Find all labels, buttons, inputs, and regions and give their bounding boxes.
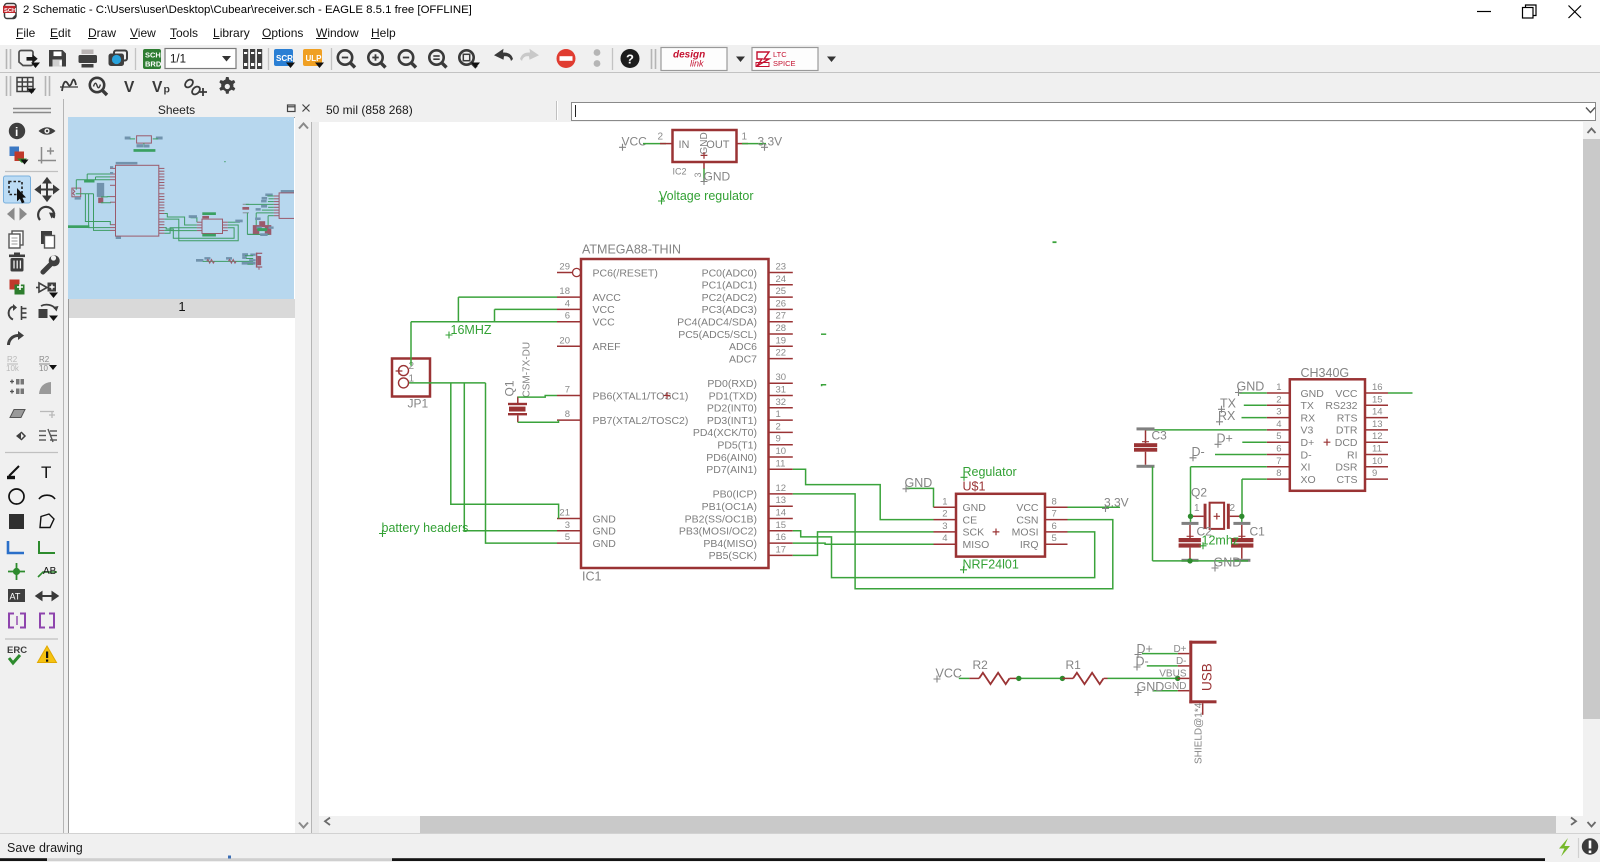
crystal Q1 (CSM-7X-DU) [508,397,527,423]
pin VBUS of USB [1159,669,1189,680]
wire CH340 VCC pin 16 [1388,392,1413,394]
pin 1 of IC1 (PD3(INT1)) [707,409,793,427]
svg-text:i: i [15,125,18,139]
junction at Q2 pin 1 [1188,514,1193,519]
ic CH340G body [1290,379,1365,491]
svg-text:AT: AT [10,592,21,602]
row9 : angle [7,331,24,345]
pin 8 of U$1 (VCC) [1016,496,1067,514]
net label 16MHZ [446,323,492,339]
ic IC1 ATMEGA88-THIN body [581,259,769,568]
trash [11,258,24,272]
pin 14 of IC1 (PB2(SS/OC1B)) [685,508,793,526]
junction at VBUS [1175,676,1180,681]
pin 6 of CH340G (D-) [1267,444,1312,462]
wire XI to Q2 pin 1 [1191,466,1267,468]
wire VCC to IC2 IN [643,143,666,145]
svg-text:R2: R2 [39,355,50,364]
wire PD7 (pin 11) to U$1 CE [793,469,934,519]
pin 17 of IC1 (PB5(SCK)) [709,544,793,562]
pin 13 of CH340G (DTR) [1336,419,1388,437]
sheets panel buttons [288,105,310,112]
stop [557,49,576,68]
capacitor C2 [1179,522,1201,559]
value label NRF24l01 [960,557,1019,573]
wire Q1 top to IC1 pin 7 [518,396,557,398]
svg-text:SCH: SCH [4,8,16,14]
pin 16 of CH340G (VCC) [1335,382,1388,400]
pin 14 of CH340G (RTS) [1337,407,1388,425]
reference designator IC2 [673,167,687,177]
svg-text:link: link [690,59,704,69]
pin 1 of CH340G (GND) [1267,382,1324,400]
crystal Q2 body [1191,503,1242,529]
row20 bus [9,614,25,628]
resistor R1 [1062,673,1107,684]
wire C3 bottom to GND rail [1152,467,1154,561]
wire D- to USB [1147,665,1178,667]
pin label GND (rotated) [699,132,710,154]
pin 1 of IC2 [737,132,749,144]
pin 5 of U$1 (IRQ) [1020,533,1068,551]
wire PB0 (pin 12) to U$1 CSN loop [793,494,1113,589]
junction after R2 [1016,676,1021,681]
pin 5 of CH340G (D+) [1267,431,1314,449]
pin SHIELD of USB [1202,703,1204,715]
rotate-group [39,309,48,318]
pin 32 of IC1 (PD2(INT0)) [707,397,793,415]
select tool highlighted [4,176,31,203]
info [9,123,25,139]
part name USB (rotated) [1200,663,1215,691]
pin 10 of CH340G (DSR) [1335,456,1388,474]
wire Q1 bottom to IC1 pin 8 [518,420,559,422]
pin 15 of IC1 (PB3(MOSI/OC2)) [679,520,793,538]
value label 12mhz [1200,533,1240,549]
pin 23 of IC1 (PC0(ADC0)) [702,262,793,280]
ground GND at U$1 [903,476,933,493]
combobox 1/1 [165,49,236,69]
wire PB4 (pin 16) to U$1 MISO [793,543,934,544]
design link btn [661,48,727,71]
svg-text:SCR: SCR [276,54,293,63]
wire VCC rail to pin 6 [411,321,557,323]
pin 12 of CH340G (DCD) [1335,431,1388,449]
reference designator R1 [1066,658,1082,672]
wire R1 to USB VBUS [1108,677,1178,679]
pin D+ of USB [1173,644,1189,655]
command dropdown chevron [1586,108,1595,113]
value label Regulator [961,465,1017,481]
svg-text:BRD: BRD [145,60,162,69]
wire AVCC down join [457,297,459,322]
pin 2 of JP1 [399,361,415,376]
undo / redo [494,49,513,61]
dimension [38,147,56,164]
net label D- [1190,445,1205,461]
pinswap [9,307,13,320]
wire AVCC pin 18 [458,296,557,298]
pin 25 of IC1 (PC2(ADC2)) [702,286,793,304]
row19 attrib, width [8,589,25,602]
svg-text:V: V [152,79,163,96]
net label D+ [1215,432,1233,448]
wire GND branch 1 to IC1 pin 21 [451,383,559,519]
pin GND of USB [1164,681,1189,692]
camera [114,51,127,61]
pin 6 of IC1 (VCC) [557,311,615,329]
svg-text:LTC: LTC [773,50,787,59]
pin 9 of IC1 (PD5(T1)) [717,434,792,452]
node VCC at USB branch [934,666,962,682]
books [243,49,262,69]
paste [41,231,52,244]
dots [594,49,601,56]
wire JP1 pin 1 east [409,382,486,384]
mirror [7,208,15,221]
wire D+ to USB [1142,653,1178,655]
pin 6 of U$1 (MOSI) [1012,521,1068,539]
pin 20 of IC1 (AREF) [557,335,621,353]
pin 1 of U$1 (GND) [934,496,987,514]
ULP [303,49,322,66]
origin cross CH340G [1324,439,1331,446]
pin label SHIELD@1*4 (rotated) [1194,702,1205,764]
wire Q2 pin2 down to C1 [1241,516,1243,522]
move [36,179,58,201]
reference designator Q2 [1191,486,1207,500]
net label TX [1218,397,1237,413]
wire VCC rail down to JP1 pin 2 [410,322,412,366]
origin cross Q2 [1214,513,1220,519]
pin 4 of IC1 (VCC) [557,298,615,316]
reference designator R2 [973,658,989,672]
pin 3 of IC2 [693,162,704,178]
sheets scrollbar arrows [299,124,308,129]
svg-text:T: T [41,463,51,482]
capacitor C1 [1231,522,1253,559]
reference designator C2 [1197,524,1213,538]
origin cross IC1 [664,392,671,399]
pin 11 of IC1 (PD7(AIN1)) [706,458,793,476]
value label CSM-7X-DU (rotated) [522,342,533,398]
wire XO to Q2 pin 2 [1242,479,1267,516]
svg-text:AB: AB [43,566,57,577]
wire PB5 (pin 17) to U$1 SCK [793,532,934,556]
window buttons [1477,5,1581,18]
rotate [38,207,54,220]
wire U$1 VCC to 3.3V [1068,506,1121,508]
reference designator Q1 (rotated) [503,380,517,396]
origin cross JP1 [396,368,403,375]
reference designator C3 [1152,429,1168,443]
pin 2 of U$1 (CE) [934,509,978,527]
pin 8 of CH340G (XO) [1267,468,1316,486]
pin D- of USB [1176,656,1189,667]
row17 wire blue, net green [8,541,24,553]
pin 28 of IC1 (PC5(ADC5/SCL)) [678,323,793,341]
svg-text:p: p [164,84,170,96]
LTC SPICE btn [752,48,818,71]
pin label IN [679,139,690,151]
pin 9 of CH340G (CTS) [1337,468,1389,486]
wire GND to USB [1153,690,1178,692]
pin 24 of IC1 (PC1(ADC1)) [702,274,793,292]
row15 circle,arc [9,489,24,504]
pin 2 of IC2 [658,132,673,144]
wire Q2 pin1 down to C2 [1190,516,1192,522]
svg-text:ULP: ULP [306,54,323,63]
pin 2 label of Q2 [1230,503,1236,514]
net label battery headers [379,521,468,537]
origin cross IC2 [701,152,708,159]
junction at C2 bottom [1187,558,1192,563]
connector USB body [1189,641,1216,704]
net label D- at USB [1134,654,1149,670]
help [621,49,640,68]
supply bar GND below C3 [1137,465,1155,468]
connector JP1 body [392,359,430,397]
svg-text:10: 10 [39,364,48,373]
pin 8 of IC1 (PB7(XTAL2/TOSC2)) [557,409,688,427]
wire stub near PD0 [822,385,827,387]
wire Q2 pin1 up to XI [1190,467,1192,517]
wire VCC pin 4 jog [495,309,558,321]
row10: R2/10k texts [6,355,20,373]
svg-text:R2: R2 [7,355,18,364]
wire GND branch 3 to IC1 pin 5 [486,383,558,543]
save [49,50,66,67]
pin 10 of IC1 (PD6(AIN0)) [706,446,793,464]
eye [39,127,56,135]
junction at Q2 pin 2 [1239,514,1244,519]
replace [10,280,20,290]
toolbar row 2 [7,76,236,96]
node VCC (regulator input label) [619,135,647,151]
pin 29 of IC1 (PC6(/RESET)) [557,262,658,280]
row12 [10,410,25,418]
supply bar GND below C2 [1182,559,1199,562]
wire stub near PC5 [821,333,826,335]
reference designator IC1 [582,570,602,584]
reference designator JP1 [408,397,429,411]
wire V3 to C3 [1146,429,1267,431]
pin 4 of U$1 (MISO) [934,533,990,551]
wire TX stub [1244,404,1267,406]
pin 12 of IC1 (PB0(ICP)) [713,483,793,501]
svg-text:V: V [124,79,135,96]
copy [12,231,23,245]
wire U$1 GND up [906,488,934,507]
SCH/BRD [143,49,161,69]
node 3.3V (regulator output label) [758,135,783,151]
ic U$1 NRF24L01 body [956,494,1045,557]
pin 3 of U$1 (SCK) [934,521,985,539]
wire IC2 OUT to 3.3V [742,143,766,145]
pin 3 of IC1 (GND) [557,520,616,538]
op-amp U1 area: voltage regulator IC2 [673,130,737,162]
toolbar row 1 [7,48,837,71]
pin 7 of CH340G (XI) [1267,456,1311,474]
resistor R2 [969,673,1018,684]
pin 26 of IC1 (PC3(ADC3)) [702,298,793,316]
ground GND label at crystal caps [1212,555,1242,571]
pin 7 of U$1 (CSN) [1016,509,1067,527]
svg-text:SPICE: SPICE [773,59,796,68]
pin 21 of IC1 (GND) [557,508,616,526]
svg-text:10k: 10k [6,364,20,373]
pin 27 of IC1 (PC4(ADC4/SDA)) [677,311,793,329]
wire R2 to R1 [1019,677,1063,679]
origin cross U$1 [993,529,1000,536]
junction before R1 [1060,676,1065,681]
ground GND at USB [1135,680,1165,696]
magnifiers [338,50,355,67]
reference designator C1 [1250,524,1266,538]
svg-text:1/1: 1/1 [170,54,186,66]
canvas scrollbar arrows [325,818,330,825]
svg-text:SCH: SCH [145,51,161,60]
wire GND branch 2 to IC1 pin 3 [464,383,557,531]
wire stub floating top right [1053,241,1057,243]
pin 1 of JP1 [399,373,415,388]
gate [39,283,47,292]
pin 22 of IC1 (ADC7) [729,348,793,366]
wire D+ stub [1242,441,1267,443]
pin 30 of IC1 (PD0(RXD)) [707,372,792,390]
wire PB3 (pin 15) to U$1 MOSI loop [793,531,1095,578]
row14 line,T [9,466,19,476]
supply bar GND below C1 [1233,559,1250,562]
pin 13 of IC1 (PB1(OC1A)) [702,495,793,513]
bottom black bars [0,858,47,861]
wire RX stub [1242,417,1267,419]
node 3.3V at U$1 [1102,495,1129,512]
status icons [1559,838,1570,857]
svg-text:ERC: ERC [7,645,27,656]
svg-text:?: ? [626,52,634,67]
ground GND below IC2 [701,169,731,185]
part name ATMEGA88-THIN [582,243,681,257]
pin 19 of IC1 (ADC6) [729,335,793,353]
wire IC2 GND down [703,169,705,182]
pin 16 of IC1 (PB4(MISO)) [703,532,792,550]
open [19,51,33,66]
pin 5 of IC1 (GND) [557,532,616,550]
pin 2 of CH340G (TX) [1267,394,1314,412]
value label Voltage regulator [658,189,754,205]
pin 18 of IC1 (AVCC) [557,286,621,304]
pin 4 of CH340G (V3) [1267,419,1314,437]
wire VCC to R2 [959,677,970,679]
net label RX [1216,409,1236,425]
pin 15 of CH340G (RS232) [1325,394,1388,412]
wrench [41,255,60,274]
pin 11 of CH340G (RI) [1347,444,1388,462]
reference designator U$1 [963,480,986,494]
part name CH340G [1301,366,1350,380]
row18 junction, label [13,568,20,575]
pin 31 of IC1 (PD1(TXD)) [709,385,793,403]
pin 3 of CH340G (RX) [1267,407,1315,425]
wire GND to CH340 pin 1 [1239,392,1267,394]
SCR [274,49,293,66]
left palette [4,109,60,664]
wire D- stub [1215,454,1267,456]
title bar icon [3,4,16,19]
ground GND at CH340 [1235,380,1264,396]
wire GND rail under crystal caps [1153,560,1249,562]
pin 7 of IC1 (PB6(XTAL1/TOSC1)) [557,385,688,403]
print [82,50,94,55]
row16 rect,polygon [9,514,24,529]
layers [10,147,20,157]
pin label OUT [706,139,730,151]
pin 2 of IC1 (PD4(XCK/T0)) [693,421,793,439]
row11 [10,380,14,394]
row13 [8,432,21,440]
capacitor C3 [1134,427,1157,464]
net label D+ at USB [1135,642,1153,658]
pin 1 label of Q2 [1194,503,1200,514]
